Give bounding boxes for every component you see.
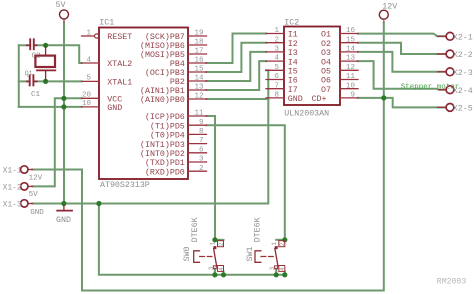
svg-text:O6: O6 (321, 77, 331, 86)
svg-text:I1: I1 (288, 31, 298, 40)
svg-text:3: 3 (269, 266, 276, 270)
svg-text:O2: O2 (321, 40, 331, 49)
svg-text:3: 3 (274, 46, 279, 54)
svg-text:PB4: PB4 (170, 60, 185, 69)
svg-text:(AIN1)PB1: (AIN1)PB1 (140, 86, 185, 96)
svg-text:Q1: Q1 (25, 70, 33, 77)
svg-text:2: 2 (274, 36, 279, 44)
svg-text:GND: GND (288, 95, 303, 104)
svg-text:(T1)PD5: (T1)PD5 (150, 121, 185, 131)
svg-text:12V: 12V (29, 174, 43, 182)
svg-text:I5: I5 (288, 68, 298, 77)
svg-text:4: 4 (279, 267, 286, 271)
svg-text:I7: I7 (288, 86, 298, 95)
svg-text:O3: O3 (321, 49, 331, 58)
svg-text:I4: I4 (288, 58, 298, 67)
svg-text:X2-5: X2-5 (453, 105, 473, 114)
svg-text:19: 19 (194, 30, 203, 38)
svg-text:13: 13 (194, 84, 204, 92)
svg-text:X2-2: X2-2 (453, 51, 473, 60)
svg-text:PB2: PB2 (170, 78, 185, 87)
svg-text:I6: I6 (288, 77, 298, 86)
svg-text:3: 3 (208, 266, 215, 270)
svg-text:(T0)PD4: (T0)PD4 (150, 131, 185, 141)
svg-text:X1-1: X1-1 (3, 167, 22, 175)
svg-text:5: 5 (274, 64, 279, 72)
svg-text:4: 4 (274, 55, 279, 63)
svg-text:O1: O1 (321, 31, 331, 40)
svg-text:I2: I2 (288, 40, 298, 49)
svg-text:12: 12 (346, 64, 355, 72)
svg-text:9: 9 (350, 92, 355, 100)
svg-text:12V: 12V (382, 2, 397, 11)
svg-text:O4: O4 (321, 58, 331, 67)
svg-text:18: 18 (194, 39, 203, 47)
svg-text:9: 9 (199, 119, 204, 127)
svg-text:7: 7 (199, 137, 204, 145)
svg-text:(ICP)PD6: (ICP)PD6 (145, 112, 185, 122)
svg-text:O7: O7 (321, 86, 331, 95)
svg-text:(MISO)PB6: (MISO)PB6 (140, 41, 185, 51)
svg-text:IC1: IC1 (99, 19, 114, 28)
svg-text:11: 11 (346, 73, 356, 81)
svg-text:2: 2 (279, 242, 286, 246)
svg-text:SW1: SW1 (246, 247, 255, 262)
svg-text:5V: 5V (29, 191, 39, 199)
svg-text:X2-1: X2-1 (453, 33, 473, 42)
svg-text:X1-2: X1-2 (3, 184, 22, 192)
svg-text:(INT1)PD3: (INT1)PD3 (140, 140, 185, 150)
svg-text:5: 5 (86, 75, 91, 83)
svg-text:X1-3: X1-3 (3, 201, 22, 209)
svg-text:1: 1 (210, 241, 217, 245)
svg-text:XTAL1: XTAL1 (107, 79, 132, 88)
svg-text:ULN2003AN: ULN2003AN (284, 110, 329, 119)
svg-text:7: 7 (274, 82, 279, 90)
svg-text:20: 20 (82, 92, 92, 100)
svg-text:1: 1 (274, 27, 279, 35)
svg-text:13: 13 (346, 55, 356, 63)
svg-text:Stepper motor: Stepper motor (401, 83, 460, 91)
svg-text:RM2003: RM2003 (437, 277, 467, 286)
svg-text:GND: GND (56, 216, 71, 225)
svg-text:16: 16 (346, 27, 356, 35)
svg-text:5V: 5V (56, 1, 66, 10)
svg-text:GND: GND (107, 104, 122, 113)
svg-text:(OCI)PB3: (OCI)PB3 (145, 68, 185, 78)
svg-text:X2-3: X2-3 (453, 69, 473, 78)
svg-text:8: 8 (199, 128, 204, 136)
svg-text:11: 11 (194, 110, 204, 118)
svg-text:RESET: RESET (107, 33, 132, 42)
svg-text:DTE6K: DTE6K (191, 217, 200, 242)
svg-text:SW0: SW0 (183, 247, 192, 262)
svg-text:4: 4 (86, 56, 91, 64)
svg-text:DTE6K: DTE6K (253, 217, 262, 242)
svg-text:GND: GND (30, 209, 44, 217)
svg-text:10: 10 (82, 100, 92, 108)
svg-text:15: 15 (194, 66, 204, 74)
svg-text:15: 15 (346, 36, 356, 44)
svg-text:8: 8 (274, 92, 279, 100)
svg-text:I3: I3 (288, 49, 298, 58)
svg-text:CD+: CD+ (312, 95, 327, 104)
svg-text:C1: C1 (31, 91, 41, 99)
svg-text:AT90S2313P: AT90S2313P (100, 181, 150, 190)
svg-text:3: 3 (199, 156, 204, 164)
svg-text:(RXD)PD0: (RXD)PD0 (145, 167, 185, 177)
svg-text:6: 6 (199, 146, 204, 154)
svg-text:XTAL2: XTAL2 (107, 60, 132, 69)
svg-text:16: 16 (194, 57, 204, 65)
svg-text:(INT0)PD2: (INT0)PD2 (140, 149, 185, 159)
svg-text:(MOSI)PB5: (MOSI)PB5 (140, 50, 185, 60)
svg-text:12: 12 (194, 93, 203, 101)
svg-text:(AIN0)PB0: (AIN0)PB0 (140, 95, 185, 105)
svg-text:O5: O5 (321, 68, 331, 77)
svg-text:17: 17 (194, 48, 203, 56)
svg-text:1: 1 (86, 29, 91, 37)
svg-text:14: 14 (346, 46, 356, 54)
svg-text:(TXD)PD1: (TXD)PD1 (145, 158, 185, 168)
svg-text:2: 2 (218, 242, 225, 246)
svg-text:1: 1 (271, 241, 278, 245)
svg-text:6: 6 (274, 73, 279, 81)
svg-text:(SCK)PB7: (SCK)PB7 (145, 32, 185, 42)
svg-text:2: 2 (199, 165, 204, 173)
svg-text:10: 10 (346, 82, 356, 90)
svg-text:4: 4 (218, 267, 225, 271)
svg-text:14: 14 (194, 75, 204, 83)
svg-text:IC2: IC2 (284, 18, 299, 27)
